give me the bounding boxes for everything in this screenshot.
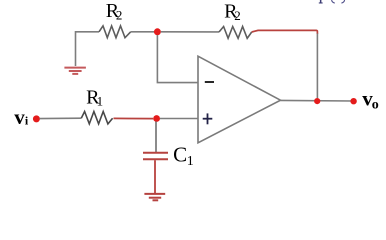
wire <box>161 31 219 33</box>
wire <box>114 117 154 119</box>
resistor R2 <box>99 26 131 38</box>
svg-text:i: i <box>25 114 29 128</box>
svg-text:1: 1 <box>97 94 104 109</box>
node <box>153 115 160 122</box>
op-amp plus pin <box>203 113 213 124</box>
resistor R1 <box>81 112 112 124</box>
wire <box>160 118 198 120</box>
op-amp U1 <box>198 56 281 143</box>
svg-text:2: 2 <box>116 8 123 23</box>
wire <box>131 31 155 33</box>
wire <box>157 35 198 83</box>
node vo terminal <box>350 98 356 104</box>
wire <box>154 160 156 193</box>
svg-text:2: 2 <box>234 8 241 23</box>
wire <box>40 117 82 119</box>
capacitor C1 <box>143 153 168 159</box>
text fragment (cropped glyph bottoms, top edge) <box>319 0 345 4</box>
resistor R2 (feedback) <box>219 27 252 39</box>
node <box>154 28 161 35</box>
svg-text:1: 1 <box>187 154 194 169</box>
wire <box>252 30 318 34</box>
node vi terminal <box>33 115 40 122</box>
svg-text:o: o <box>372 98 379 113</box>
svg-text:C: C <box>173 143 187 167</box>
wire <box>155 122 157 153</box>
wire <box>281 99 354 102</box>
node (output) <box>314 98 320 104</box>
op-amp minus pin <box>205 81 214 83</box>
wire <box>76 32 100 66</box>
svg-text:v: v <box>14 105 25 129</box>
wire <box>316 34 318 99</box>
ground <box>64 68 86 74</box>
ground <box>144 194 165 200</box>
